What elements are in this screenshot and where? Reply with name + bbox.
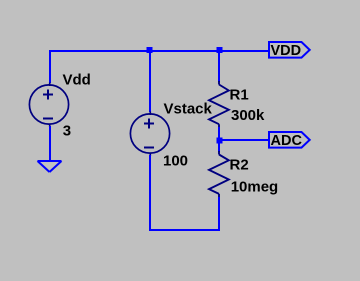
wire Vdd vertical drop	[49, 50, 51, 83]
junction node ADC	[217, 138, 223, 144]
wire R1 to ADC node	[218, 127, 220, 141]
voltage source V2 Vstack	[130, 112, 169, 157]
wire Vdd to ground	[49, 126, 51, 161]
voltage source V1 Vdd	[29, 83, 68, 128]
wire junction to R1	[218, 50, 220, 82]
svg-text:ADC: ADC	[271, 133, 303, 149]
svg-text:Vstack: Vstack	[164, 100, 213, 117]
ground	[38, 161, 62, 172]
svg-text:R1: R1	[230, 87, 249, 104]
junction at R1 top node	[217, 47, 223, 53]
svg-text:Vdd: Vdd	[63, 72, 91, 89]
wire R2 bottom	[218, 197, 220, 230]
flag ADC	[269, 132, 310, 148]
svg-text:100: 100	[163, 153, 188, 170]
junction at Vstack top node	[147, 47, 153, 53]
resistor R2	[209, 151, 229, 198]
svg-text:3: 3	[63, 122, 71, 139]
flag VDD	[269, 42, 310, 58]
resistor R1	[209, 81, 229, 128]
wire Vstack vertical top	[149, 50, 151, 112]
wire ADC node to R2	[218, 142, 220, 152]
wire ADC horizontal	[219, 139, 269, 141]
svg-text:R2: R2	[230, 157, 249, 174]
wire bottom horizontal	[149, 229, 220, 231]
wire top horizontal (VDD net)	[49, 50, 269, 52]
svg-text:VDD: VDD	[271, 43, 302, 59]
wire Vstack bottom	[149, 155, 151, 230]
svg-text:300k: 300k	[231, 107, 265, 124]
svg-text:10meg: 10meg	[231, 178, 279, 195]
